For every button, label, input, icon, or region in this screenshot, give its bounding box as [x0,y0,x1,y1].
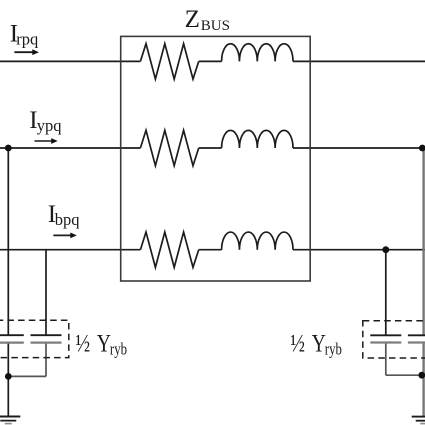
svg-text:½: ½ [76,329,91,357]
inductor (phase r) [222,44,293,62]
inductor (phase y) [222,130,293,148]
capacitor (right, phase b): top plate [370,334,401,336]
wire: phase y between resistor and inductor [199,147,222,149]
capacitor (left, phase y): bottom plate [0,342,24,344]
dashed box: left half-admittance group [0,320,69,357]
capacitor (left, phase b): bottom plate [31,342,62,344]
node: junction dot right bottom bus [418,372,425,379]
wire: left shunt branch of phase b (lower segment) [45,343,47,377]
capacitor (right, phase y): top plate [408,334,425,336]
wire: left shunt branch of phase y (upper segment to capacitor) [7,148,9,335]
ground (right): bar 2 [416,420,425,422]
ground (right): bar 1 [412,416,425,418]
arrow: current direction I_rpq [14,49,39,55]
arrow: current direction I_ypq [35,138,58,144]
wire: phase y horizontal line right of inductor to right edge [293,147,425,149]
ground (left): bar 3 [5,423,12,425]
inductor (phase b) [222,232,293,250]
capacitor (left, phase y): top plate [0,334,24,336]
node: junction dot phase y right [419,145,425,152]
svg-text:ryb: ryb [325,341,342,359]
svg-text:rpq: rpq [16,30,38,49]
capacitor (right, phase y): bottom plate [408,341,425,343]
wire: phase y horizontal line left of Z_BUS [0,147,140,149]
wire: left shunt branch of phase b (upper segment to capacitor) [45,250,47,336]
wire: right shunt branch of phase b (upper segment to capacitor) [385,250,387,336]
ground (left): bar 2 [0,420,16,422]
svg-text:½: ½ [290,329,305,357]
wire: phase b horizontal line left of Z_BUS [0,249,140,251]
node: junction dot phase b right [382,246,389,253]
label: one-half Y_ryb (right) [290,329,342,359]
wire: phase b horizontal line right of inductor to right edge [293,249,425,251]
Z_BUS impedance box outline [121,36,311,281]
svg-text:Y: Y [312,329,326,357]
wire: right shunt branch of phase y (upper segment to capacitor) [422,148,424,335]
label: one-half Y_ryb (left) [76,329,128,359]
svg-text:ypq: ypq [37,116,62,135]
wire: phase b between resistor and inductor [199,249,222,251]
resistor (phase b) [140,232,198,267]
svg-text:Y: Y [97,329,111,357]
wire: right shunt branch of phase y (lower segment to ground) [422,343,424,417]
ground (left): bar 1 [0,416,20,418]
ground (right): bar 3 [420,423,425,425]
resistor (phase y) [140,130,198,165]
svg-text:BUS: BUS [201,18,230,34]
wire: left bottom bus joining shunt branches [8,375,46,377]
wire: right bottom bus joining shunt branches [386,374,422,376]
wire: left shunt branch of phase y (lower segment to ground) [7,343,9,417]
wire: phase r horizontal line right of inductor to right edge [293,60,425,62]
wire: phase r horizontal line left of Z_BUS [0,60,140,62]
dashed box: right half-admittance group [363,321,425,358]
resistor (phase r) [140,44,198,79]
svg-text:Z: Z [185,6,200,33]
capacitor (left, phase b): top plate [31,334,62,336]
node: junction dot phase y left [5,145,12,152]
capacitor (right, phase b): bottom plate [370,341,401,343]
wire: phase r between resistor and inductor [199,60,222,62]
svg-text:ryb: ryb [110,341,127,359]
wire: right shunt branch of phase b (lower segment) [385,343,387,376]
svg-text:bpq: bpq [55,210,80,229]
node: junction dot left bottom bus [5,373,12,380]
arrow: current direction I_bpq [53,233,76,239]
